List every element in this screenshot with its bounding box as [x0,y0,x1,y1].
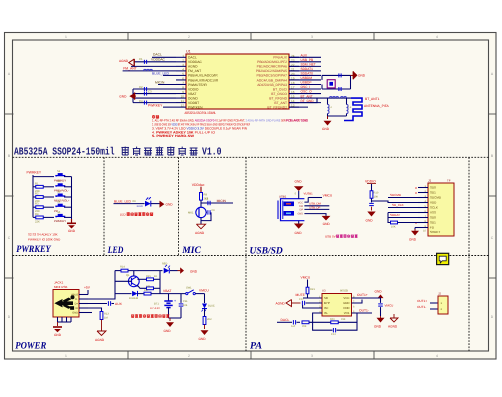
svg-text:C14: C14 [331,333,336,336]
wire MICIN pin7 [158,83,176,85]
svg-text:4: 4 [436,35,438,39]
wire q1 base [115,280,132,282]
svg-text:USB 5V: USB 5V [325,235,336,239]
usb trident glyph [56,296,75,310]
wire led [114,203,145,205]
section divider horizontal y254 [13,255,489,257]
svg-text:ADC4/USB_DM/PA4: ADC4/USB_DM/PA4 [257,78,288,82]
svg-text:AB5325A SSOP24-150MIL: AB5325A SSOP24-150MIL [185,111,217,115]
svg-text:ID: ID [75,307,78,310]
resistor R3 [33,206,36,208]
wire BLUE_LED pin5 [163,74,176,76]
wire dacl 2 [297,321,301,323]
wire usb dm [304,205,329,207]
wire switch to vmcu [195,293,204,295]
wire DACL [152,56,176,58]
svg-text:PWRKEY: PWRKEY [54,219,66,223]
pwrkey left bus [32,175,34,217]
capacitor C15 pa [378,303,383,305]
power gnd pa top [352,300,363,304]
resistor R2 [33,196,36,198]
svg-text:AUX: AUX [115,302,123,306]
pa pin numbers [319,296,355,314]
svg-text:GND: GND [358,74,366,78]
svg-text:DACL: DACL [281,318,290,322]
ic U1 right pin numbers [291,54,295,108]
sd pin stubs [418,188,428,228]
svg-text:MINI USB: MINI USB [54,285,67,289]
section divider vertical x104 [103,157,105,255]
svg-text:1: 1 [65,35,67,39]
wire pa cap gnd [380,307,382,316]
sd card connector J1 body [428,183,454,236]
svg-text:MIC: MIC [181,245,201,256]
svg-text:AGND: AGND [195,231,205,235]
wire sdcmd [388,197,418,199]
svg-text:J1: J1 [428,179,432,183]
agnd pa left [286,300,292,307]
svg-text:2: 2 [188,35,190,39]
resistor R11 sd pullup [391,221,398,224]
ic U1 right pin names [256,56,288,110]
svg-text:BLUE_LED: BLUE_LED [114,199,131,203]
switch S1 [33,176,54,178]
svg-text:FDD: FDD [344,306,350,310]
led D6 power [202,304,207,309]
svg-text:4: 4 [436,354,438,358]
svg-text:GND: GND [297,213,303,216]
wire crystal right vertical [350,75,352,89]
wire vo1 out [352,312,373,314]
svg-text:GND: GND [164,329,172,333]
svg-text:BT_ANT1: BT_ANT1 [365,97,380,101]
capacitor C5 crystal top [338,73,340,77]
wire VDDBT pin11 [133,102,176,104]
power gnd usb bottom [294,224,304,229]
svg-text:R14: R14 [120,266,125,269]
svg-text:GND: GND [54,333,62,337]
svg-text:D+: D+ [75,303,79,306]
svg-text:AGND: AGND [95,338,105,342]
wire vddio down [371,184,373,191]
svg-text:R15: R15 [146,275,151,278]
wire vmcu down [204,294,206,303]
svg-text:IN+: IN+ [324,306,329,310]
inductor L4 shunt [328,104,330,113]
wire top rail middle [128,270,163,272]
power note chinese [131,315,134,318]
ic U1 left pin stubs [176,57,186,107]
svg-text:VDDBT: VDDBT [188,101,199,105]
wire mic node [200,200,202,208]
wire usb vbus [304,198,308,203]
svg-text:AB5325A SSOP24-150mil: AB5325A SSOP24-150mil [14,146,115,158]
svg-text:GND: GND [295,231,303,235]
zone tick marks bottom [127,351,129,359]
svg-text:S2: S2 [57,180,61,183]
wire +5V [87,290,89,295]
inductor L3 [340,96,346,98]
power gnd top right [180,267,184,273]
svg-text:USB/SD: USB/SD [250,245,283,256]
capacitor C8 mic [207,201,209,205]
svg-text:GND: GND [366,219,374,223]
svg-text:3: 3 [311,35,313,39]
svg-text:PB6/AUXR/ADC1/IR: PB6/AUXR/ADC1/IR [188,78,219,82]
svg-text:GND: GND [119,94,127,98]
wire key row 5 [64,216,72,218]
wire mic out [201,202,233,204]
svg-text:VCC: VCC [298,201,303,204]
section divider horizontal y157 [13,156,489,158]
svg-text:TF: TF [447,179,451,183]
resistor R10 [370,191,373,199]
usb connector pin plate D- [284,202,295,207]
capacitor C12 byp [301,301,303,305]
wire jack to bus [88,271,115,300]
svg-text:PWRKEY IO 100K GND: PWRKEY IO 100K GND [28,238,61,242]
inductor L2 [329,96,339,98]
wire usb dp [304,208,329,210]
svg-text:R17: R17 [144,289,149,292]
svg-text:MK1: MK1 [188,212,194,215]
wire sd dat [388,217,418,219]
svg-text:1K: 1K [154,275,157,278]
svg-text:VBAT: VBAT [163,289,171,293]
wire crystal cap row bottom [322,88,351,90]
svg-text:FM_ANT: FM_ANT [123,67,137,71]
ic U1 body [186,54,289,109]
wire in- vertical [313,313,322,322]
svg-text:BLUE_LED: BLUE_LED [152,71,169,75]
jack J3 MINI USB body [53,290,79,318]
svg-text:GND: GND [295,179,303,183]
svg-text:S3: S3 [57,190,61,193]
svg-text:GND: GND [190,270,198,274]
svg-text:SDCMD: SDCMD [390,193,402,197]
resistor R14 top [121,269,128,272]
svg-text:1uF: 1uF [291,325,296,328]
power gnd sd bottom [411,231,419,236]
battery BT1 [164,300,172,302]
svg-text:GND: GND [409,238,417,242]
svg-text:SHDET: SHDET [430,230,440,234]
wire in+ stub [303,305,322,308]
svg-text:R2: R2 [35,193,39,196]
resistor R20 feedback [331,321,339,324]
svg-text:BT_OSCI: BT_OSCI [273,87,287,91]
wire vbat node down [168,294,170,301]
wire led to resistor [204,309,206,317]
capacitor C1 [143,60,145,64]
pa pin names left [324,296,330,315]
wire vmcu horiz [308,197,322,199]
svg-text:MUTE: MUTE [296,293,306,297]
svg-text:PB2/ADC2/SDM/PA5: PB2/ADC2/SDM/PA5 [256,69,287,73]
svg-text:VDD: VDD [430,201,437,205]
wire VDDDAC [134,61,176,63]
wire crystal left vertical top [321,75,323,80]
sd pin numbers [423,185,426,233]
jack pin stubs [79,295,88,313]
svg-text:8002B: 8002B [340,290,348,293]
svg-text:C1: C1 [139,57,143,61]
svg-text:BT1: BT1 [154,303,159,306]
resistor R4 [33,216,36,218]
svg-text:SW1: SW1 [186,287,192,290]
agnd jack [101,320,103,332]
wire dacl [277,321,292,323]
svg-text:VMCU: VMCU [301,276,311,280]
svg-text:AGND: AGND [388,325,398,329]
svg-text:R1: R1 [35,182,39,185]
svg-text:+5V: +5V [84,286,91,290]
svg-text:DM: DM [299,205,303,208]
wire diode to gnd [170,270,178,272]
wire sd sclk [388,207,418,209]
svg-text:PB1/ADC/MICR/PA6: PB1/ADC/MICR/PA6 [257,65,288,69]
svg-text:JACK1: JACK1 [54,281,64,285]
power gnd usb right [322,216,331,221]
svg-text:PWRKEN: PWRKEN [188,105,203,109]
svg-text:AGND: AGND [188,65,198,69]
svg-text:LED: LED [120,213,127,217]
usb shield bottom wire [298,221,300,224]
svg-text:MICIN: MICIN [217,199,227,203]
capacitor C14 feedback [332,328,334,332]
svg-text:R21: R21 [310,288,315,291]
svg-text:VBAT: VBAT [188,92,196,96]
svg-text:ANTENNA_PIFA: ANTENNA_PIFA [364,104,390,108]
usb shield wire to gnd top [298,191,300,199]
wire sd pullup loop [388,213,390,223]
svg-text:BLUE: BLUE [208,305,215,308]
wire shunt rail [328,115,347,117]
wire DGND pin10 [133,97,176,99]
svg-text:GND: GND [322,127,330,131]
svg-text:R20: R20 [330,318,335,321]
svg-text:POWER: POWER [15,341,46,352]
resistor R21 vmcu [306,287,309,294]
microphone MK1 [196,207,206,217]
svg-text:PB0/ADC/MICL/PF2: PB0/ADC/MICL/PF2 [257,60,287,64]
wire rf pin14 jog [289,98,317,103]
ic U1 left pin names [188,56,219,110]
svg-text:GND: GND [323,222,331,226]
svg-text:R4: R4 [35,213,39,216]
svg-text:R10: R10 [374,192,379,195]
wire to feedback node [309,321,331,323]
svg-text:SCLK: SCLK [430,206,438,210]
svg-text:SDCMD: SDCMD [430,196,442,200]
sd pin names [430,186,442,235]
jack bottom shield pins [58,317,72,322]
svg-text:MICIN: MICIN [155,81,165,85]
svg-text:+: + [174,299,176,303]
svg-text:VDDIO: VDDIO [188,87,199,91]
svg-text:3: 3 [311,354,313,358]
svg-text:GND: GND [68,229,76,233]
svg-text:SD: SD [324,296,328,300]
resistor R16 [137,285,146,289]
svg-text:2K2: 2K2 [207,318,212,321]
wire q1 collector [133,271,135,276]
svg-text:SD_CLK: SD_CLK [392,203,404,207]
wire vmcu pa down [307,280,309,288]
svg-text:15K: 15K [341,318,346,321]
wire sd vss [388,212,418,214]
wire mic bottom [200,218,202,225]
svg-text:VSS: VSS [430,211,436,215]
resistor R17 series [144,292,151,295]
svg-text:FM_ANT: FM_ANT [188,69,201,73]
svg-text:C4: C4 [139,99,143,103]
svg-text:VUSB1: VUSB1 [304,192,314,196]
svg-text:SDDAT: SDDAT [390,213,400,217]
section divider vertical x178 [178,157,180,255]
resistor R9 [200,193,203,201]
diode D5 1N4148 row [115,293,132,295]
svg-text:ADC5/USB_DP/PA3: ADC5/USB_DP/PA3 [257,83,287,87]
antenna ANT1 meander [344,98,362,120]
svg-text:5. PWRKEY HARD-SW: 5. PWRKEY HARD-SW [152,134,194,138]
wire usb gnd [304,214,326,216]
svg-text:SD0: SD0 [430,216,436,220]
svg-text:VDDIO: VDDIO [365,180,376,184]
svg-text:1N4148: 1N4148 [129,297,139,300]
capacitor C6 crystal bottom [338,87,340,91]
svg-text:BT_OSCO: BT_OSCO [271,92,287,96]
svg-text:PWMUTE/IR: PWMUTE/IR [188,83,207,87]
zone tick marks left [5,113,14,115]
svg-text:USB_DP: USB_DP [309,205,320,209]
vertical join right [159,271,161,294]
svg-text:VMCU: VMCU [323,194,333,198]
svg-text:RED: RED [162,263,167,266]
svg-text:22K: 22K [35,220,40,223]
inductor L1 [144,69,153,71]
svg-text:10K: 10K [391,226,396,229]
svg-text:OUT1+: OUT1+ [357,293,368,297]
svg-text:R13: R13 [104,313,109,316]
svg-text:VMCU: VMCU [385,304,394,308]
power gnd sd left [371,207,373,211]
wire sd gnd bottom [415,227,418,229]
svg-text:VBUS: VBUS [71,294,78,297]
power port GND crystal [351,74,354,76]
svg-text:S2 S3 S4 ADKEY 10K: S2 S3 S4 ADKEY 10K [28,233,58,237]
svg-text:J2: J2 [438,292,441,296]
svg-text:VDDDAC: VDDDAC [188,60,203,64]
note balloon icon [437,253,449,264]
power gnd usb top [294,186,304,191]
resistor R12 vertical [100,312,103,320]
power port GND antenna [327,116,329,119]
led D1 [145,201,151,207]
switch SW1 [186,293,188,295]
svg-text:AGND: AGND [276,301,286,305]
crystal X1 [327,80,335,88]
right net labels of U1 [301,54,316,103]
wire power top rail [115,270,121,272]
svg-text:GND: GND [72,312,78,315]
capacitor C13 dacl [292,320,294,324]
power gnd jack [57,322,59,326]
zone tick marks right [488,113,496,115]
svg-text:C12: C12 [299,298,304,301]
transistor Q1 [128,276,139,287]
svg-text:10K: 10K [374,196,379,199]
svg-text:PWRKEY: PWRKEY [148,103,163,107]
power port AGND left [129,59,134,66]
svg-text:SD0: SD0 [430,186,436,190]
svg-text:10K: 10K [146,285,151,288]
wire power bottom rail [169,317,182,319]
capacitor C4 [143,101,145,105]
wire crystal left vertical bottom [321,84,323,89]
wire AGND pin3 row [131,65,176,67]
wire VDDIO pin8 [133,88,176,90]
wire mic gnd loop [201,212,211,220]
wire feedback right [339,313,358,322]
svg-text:S5: S5 [57,211,61,214]
ic U1 right pin stubs [289,57,299,107]
svg-text:1: 1 [65,354,67,358]
led D4 top [164,268,170,274]
sheet title chinese blocks [121,147,129,155]
svg-text:DACL: DACL [188,56,197,60]
wire FM_ANT [123,70,176,72]
wire pa cap rail [372,298,381,303]
capacitor C2 [143,87,145,91]
pa pin names right [343,296,350,315]
wire crystal cap row top [322,74,351,76]
wire mute [303,297,322,299]
pwrkey right bus [71,177,73,219]
svg-text:1M: 1M [104,317,108,320]
inductor L5 shunt [347,104,349,113]
svg-text:LED: LED [107,245,123,256]
svg-text:PB3/ADC3/SDP/PA7: PB3/ADC3/SDP/PA7 [256,74,287,78]
speaker connector J2 [438,296,448,314]
capacitor C10 aux [107,301,109,306]
wire key row 4 [64,206,72,208]
section divider vertical x246 [245,157,247,351]
svg-text:PF6/AUX: PF6/AUX [273,56,288,60]
capacitor C11 power [180,294,182,303]
svg-text:3.7-4.2V: 3.7-4.2V [150,307,160,310]
svg-text:20K: 20K [302,325,307,328]
wire agnd to byp [292,302,301,304]
svg-text:BT_RFGND2: BT_RFGND2 [267,105,287,109]
svg-text:VDDdac: VDDdac [192,183,205,187]
gnd bus vertical left [132,89,134,103]
wire sd vdd [372,201,419,203]
power gnd bars PWRKEY [71,219,73,223]
resistor R18 dacl [302,321,309,324]
svg-text:IN-: IN- [324,311,328,315]
section divider vertical x469 [468,157,470,351]
svg-text:PCB-ANT GND: PCB-ANT GND [286,119,309,123]
svg-text:D-: D- [75,298,78,301]
svg-text:VMCU: VMCU [199,289,209,293]
power gnd led [204,325,206,330]
capacitor C9 sd [371,199,373,203]
pa chip U3 body [322,294,352,317]
wire speaker - [430,308,438,310]
svg-text:GND: GND [166,203,174,207]
agnd pa bottom [390,318,398,322]
